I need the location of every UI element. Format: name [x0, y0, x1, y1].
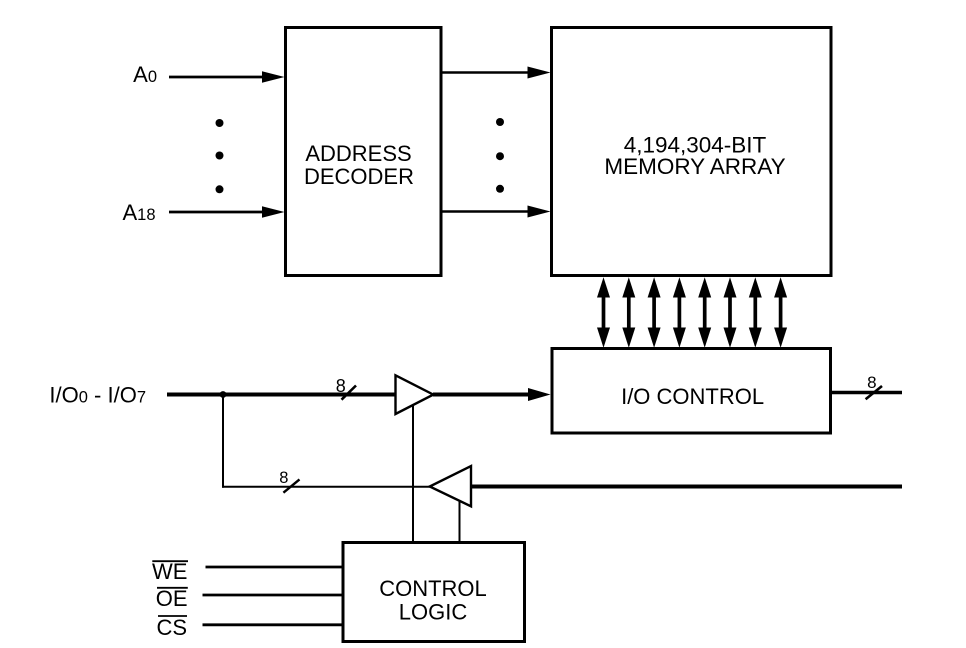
svg-text:DECODER: DECODER [304, 164, 414, 189]
svg-text:CONTROL: CONTROL [379, 576, 487, 601]
block U3 I/O CONTROL [552, 349, 831, 434]
svg-text:8: 8 [279, 469, 288, 487]
data bus double arrow 2 [622, 277, 635, 347]
svg-text:WE: WE [152, 559, 187, 584]
data bus double arrow 4 [673, 277, 686, 347]
tristate buffer Q2 (read path, pointing left) [430, 466, 471, 506]
enable wire for buffer Q2 [459, 501, 461, 543]
wire CS input [203, 623, 344, 626]
svg-text:8: 8 [867, 373, 876, 392]
wire read path horizontal thin [222, 486, 431, 488]
svg-text:I/O0 - I/O7: I/O0 - I/O7 [49, 382, 146, 407]
data bus double arrow 8 [774, 277, 787, 347]
ellipsis dots address inputs [216, 119, 224, 127]
svg-text:ADDRESS: ADDRESS [305, 141, 411, 166]
enable wire for buffer Q1 [412, 405, 414, 543]
data bus double arrow 6 [724, 277, 737, 347]
wire I/O control output [831, 391, 903, 394]
arrowhead A18 into decoder [262, 206, 285, 218]
wire decoder to memory top [441, 71, 529, 74]
wire OE input [203, 594, 344, 597]
tristate buffer Q1 (write path, pointing right) [396, 375, 434, 414]
arrowhead decoder to memory top [528, 67, 551, 79]
wire WE input [206, 566, 344, 569]
arrowhead decoder to memory bottom [528, 206, 551, 218]
data bus double arrow 1 [597, 277, 610, 347]
svg-text:8: 8 [336, 376, 346, 396]
bus width slash 8 (output bus) [866, 386, 882, 399]
wire decoder to memory bottom [441, 210, 529, 213]
block U4 CONTROL LOGIC [343, 543, 525, 642]
ellipsis dots decode lines [496, 118, 504, 126]
wire A0 input [169, 76, 263, 79]
wire read bus from right [471, 485, 902, 489]
wire A18 input [169, 211, 263, 214]
label CONTROL LOGIC [379, 576, 487, 625]
svg-text:OE: OE [156, 586, 188, 611]
svg-text:CS: CS [156, 615, 187, 640]
label 4,194,304-BIT MEMORY ARRAY [604, 133, 785, 180]
data bus double arrow 7 [749, 277, 762, 347]
svg-text:I/O CONTROL: I/O CONTROL [621, 384, 764, 409]
svg-text:LOGIC: LOGIC [399, 600, 468, 625]
block U2 4,194,304-BIT MEMORY ARRAY [552, 28, 832, 276]
block U1 ADDRESS DECODER [286, 28, 442, 276]
arrowhead A0 into decoder [262, 71, 285, 83]
wire I/O bus input [167, 393, 396, 397]
bus width slash 8 (read bus) [283, 479, 299, 492]
label ADDRESS DECODER [304, 141, 414, 189]
arrowhead into I/O control [528, 388, 551, 401]
svg-text:MEMORY ARRAY: MEMORY ARRAY [604, 154, 785, 179]
wire junction drop vertical [222, 393, 224, 488]
wire buffer output to I/O control [433, 393, 530, 397]
data bus double arrow 5 [698, 277, 711, 347]
bus width slash 8 (input bus) [342, 386, 357, 400]
junction node I/O bus [220, 391, 227, 398]
data bus double arrow 3 [648, 277, 661, 347]
